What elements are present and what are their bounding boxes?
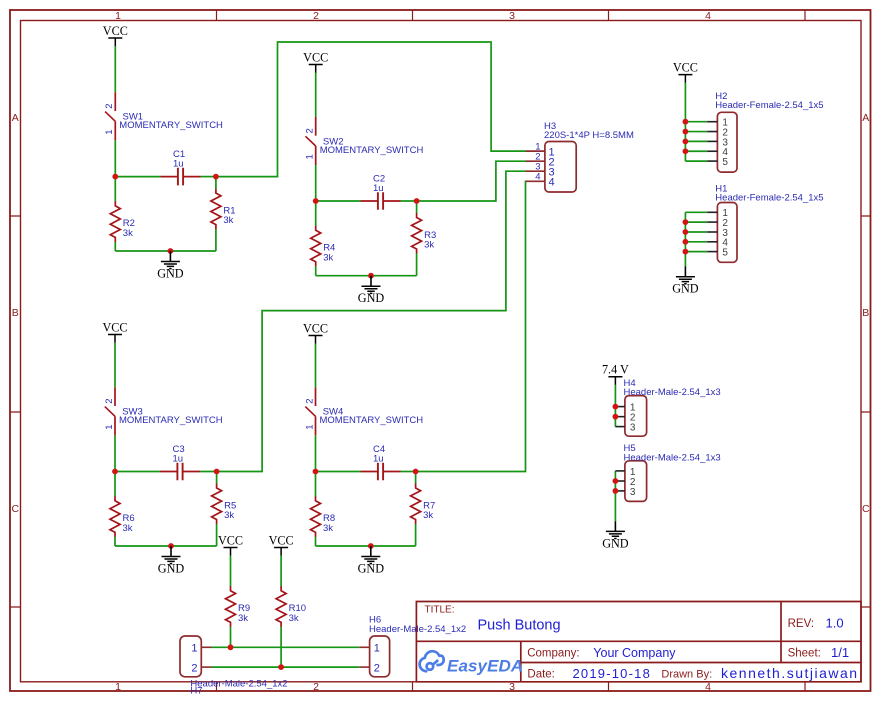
svg-text:Header-Female-2.54_1x5: Header-Female-2.54_1x5: [715, 193, 823, 204]
svg-text:3k: 3k: [238, 613, 248, 624]
resistor R6: [110, 496, 135, 537]
switch SW1: [104, 92, 223, 140]
wire node to R4 top: [315, 201, 317, 226]
EasyEDA logo: [420, 651, 444, 671]
node SW2_OUT right junction: [414, 198, 420, 204]
svg-text:MOMENTARY_SWITCH: MOMENTARY_SWITCH: [320, 415, 424, 426]
wire tap to H2 pin 4: [685, 150, 707, 152]
wire VCC to SW1: [114, 46, 116, 92]
junction H4 pin2: [613, 414, 619, 420]
junction H1 rail: [683, 239, 689, 245]
svg-text:Drawn By:: Drawn By:: [661, 669, 712, 681]
resistor R1: [211, 189, 236, 230]
svg-text:Sheet:: Sheet:: [788, 648, 821, 660]
svg-text:GND: GND: [672, 282, 699, 296]
capacitor C3: [160, 444, 200, 480]
svg-text:GND: GND: [602, 536, 629, 550]
capacitor C4: [361, 444, 401, 480]
svg-text:VCC: VCC: [269, 533, 294, 547]
junction R9 to pin1 net: [228, 644, 234, 650]
resistor R10: [276, 586, 306, 627]
svg-text:1u: 1u: [173, 159, 184, 170]
wire VCC to R9 top: [230, 556, 232, 587]
svg-text:3k: 3k: [323, 252, 333, 263]
wire tap to H2 pin 2: [685, 131, 707, 133]
svg-text:3k: 3k: [323, 523, 333, 534]
junction H2 rail: [683, 119, 689, 125]
wire node to R7 top: [415, 472, 417, 484]
capacitor C2: [361, 174, 401, 210]
power flag VCC: [218, 533, 243, 555]
power flag VCC: [269, 533, 294, 555]
ground: [358, 546, 385, 575]
svg-text:2019-10-18: 2019-10-18: [573, 666, 652, 681]
svg-text:2: 2: [313, 681, 319, 693]
svg-text:1u: 1u: [373, 454, 384, 465]
svg-text:EasyEDA: EasyEDA: [447, 657, 523, 676]
svg-text:MOMENTARY_SWITCH: MOMENTARY_SWITCH: [119, 415, 223, 426]
wire R8 bottom: [315, 537, 317, 546]
svg-text:1: 1: [104, 425, 115, 430]
svg-text:C: C: [862, 503, 870, 515]
resistor R2: [110, 201, 135, 242]
svg-text:1.0: 1.0: [826, 616, 844, 631]
wire node to R8 top: [315, 472, 317, 497]
wire node to R2 top: [114, 177, 116, 202]
svg-text:Date:: Date:: [527, 669, 555, 681]
svg-text:VCC: VCC: [218, 533, 243, 547]
junction block2 GND: [368, 273, 374, 279]
svg-text:3k: 3k: [223, 215, 233, 226]
wire C2 right to node: [400, 200, 416, 202]
svg-text:A: A: [12, 112, 19, 124]
wire H5 pins to GND: [614, 471, 616, 521]
switch SW2: [305, 117, 424, 165]
svg-text:4: 4: [705, 10, 711, 22]
junction H5 pin3: [613, 488, 619, 494]
svg-text:3: 3: [509, 681, 515, 693]
wire 7.4V to H4 pins: [614, 385, 616, 427]
resistor R9: [226, 586, 251, 627]
svg-text:2: 2: [104, 399, 115, 404]
svg-text:1: 1: [115, 681, 121, 693]
svg-text:GND: GND: [358, 561, 385, 575]
wire C3 right to node: [200, 471, 217, 473]
svg-text:Header-Male-2.54_1x2: Header-Male-2.54_1x2: [369, 624, 466, 635]
svg-text:kenneth.sutjiawan: kenneth.sutjiawan: [721, 665, 859, 681]
junction H2 rail: [683, 148, 689, 154]
svg-text:3k: 3k: [224, 510, 234, 521]
svg-text:TITLE:: TITLE:: [425, 605, 455, 616]
title block frame: [416, 602, 861, 682]
wire tap to H1 pin 1: [685, 211, 707, 213]
svg-text:VCC: VCC: [102, 320, 127, 334]
wire VCC to R10 top: [280, 556, 282, 587]
svg-text:Header-Male-2.54_1x3: Header-Male-2.54_1x3: [624, 387, 721, 398]
junction H4 pin1: [613, 404, 619, 410]
svg-text:3: 3: [630, 487, 636, 498]
junction H1 rail: [683, 249, 689, 255]
svg-text:1: 1: [374, 643, 380, 655]
svg-text:VCC: VCC: [103, 24, 128, 38]
wire C4 right to node: [400, 471, 415, 473]
svg-text:220S-1*4P H=8.5MM: 220S-1*4P H=8.5MM: [544, 130, 634, 141]
wire tap to H1 pin 5: [685, 251, 707, 253]
resistor R8: [311, 496, 336, 537]
svg-text:4: 4: [705, 681, 711, 693]
wire tap to H2 pin 3: [685, 140, 707, 142]
node SW1_OUT left junction: [112, 174, 118, 180]
power flag VCC: [673, 60, 698, 82]
svg-text:Header-Male-2.54_1x2: Header-Male-2.54_1x2: [190, 678, 287, 689]
connector H6 Header-Male-2.54_1x2: [359, 615, 466, 677]
wire C1 right to node: [200, 176, 216, 178]
wire SW1 to node SW1_OUT: [114, 140, 116, 176]
wire SW4_OUT to H3 pin 4: [416, 181, 526, 471]
wire tap to H1 pin 2: [685, 221, 707, 223]
wire R2/R1 bottoms to GND: [115, 250, 216, 252]
node SW2_OUT left junction: [313, 198, 319, 204]
connector H5 Header-Male-2.54_1x3: [615, 443, 720, 502]
node SW4_OUT right junction: [413, 469, 419, 475]
wire H7 pin2 to H6 pin2: [212, 666, 360, 668]
svg-text:GND: GND: [158, 561, 185, 575]
svg-text:1u: 1u: [173, 454, 184, 465]
power flag VCC: [103, 24, 128, 46]
power flag VCC: [303, 321, 328, 343]
capacitor C1: [161, 149, 201, 185]
svg-text:GND: GND: [157, 266, 184, 280]
wire tap to H2 pin 5: [685, 160, 707, 162]
svg-text:VCC: VCC: [673, 60, 698, 74]
svg-text:Your Company: Your Company: [593, 646, 676, 660]
svg-text:2: 2: [191, 662, 197, 674]
wire R2 bottom: [114, 242, 116, 251]
ground: [602, 521, 629, 550]
svg-text:REV:: REV:: [788, 618, 814, 630]
wire R6 bottom: [114, 537, 116, 546]
svg-text:MOMENTARY_SWITCH: MOMENTARY_SWITCH: [320, 145, 424, 156]
junction H2 rail: [683, 129, 689, 135]
wire H1 rail to GND: [684, 212, 686, 266]
svg-text:VCC: VCC: [303, 50, 328, 64]
svg-text:2: 2: [374, 662, 380, 674]
switch SW3: [104, 387, 223, 435]
svg-text:Push Butong: Push Butong: [478, 618, 561, 634]
power flag VCC: [102, 320, 127, 342]
wire SW3 to node SW3_OUT: [114, 435, 116, 471]
connector H2 Header-Female-2.54_1x5: [707, 91, 823, 172]
node SW3_OUT left junction: [112, 469, 118, 475]
svg-text:A: A: [862, 112, 869, 124]
wire node to R5 top: [216, 472, 218, 484]
svg-text:4: 4: [535, 172, 540, 183]
wire node to C4 left: [316, 471, 361, 473]
wire R1 bottom: [215, 229, 217, 251]
wire VCC to SW2: [315, 73, 317, 118]
junction H5 pin2: [613, 478, 619, 484]
svg-text:B: B: [12, 307, 19, 319]
svg-text:H7: H7: [190, 686, 202, 697]
wire SW1_OUT to H3 pin 1: [216, 42, 526, 177]
svg-text:B: B: [862, 307, 869, 319]
svg-text:1: 1: [304, 425, 315, 430]
svg-text:1: 1: [305, 154, 316, 159]
svg-text:2: 2: [104, 104, 115, 109]
wire node to R1 top: [215, 177, 217, 189]
wire node to R6 top: [114, 472, 116, 497]
wire VCC to SW3: [114, 343, 116, 388]
svg-text:1u: 1u: [373, 183, 384, 194]
svg-text:2: 2: [313, 10, 319, 22]
junction H1 rail: [683, 229, 689, 235]
junction block4 GND: [368, 543, 374, 549]
ground: [358, 276, 385, 306]
svg-text:MOMENTARY_SWITCH: MOMENTARY_SWITCH: [119, 120, 223, 131]
svg-text:5: 5: [722, 248, 728, 259]
svg-text:5: 5: [722, 157, 728, 168]
resistor R4: [311, 226, 336, 266]
junction block3 GND: [168, 543, 174, 549]
connector H4 Header-Male-2.54_1x3: [615, 378, 720, 436]
wire R4/R3 bottoms to GND: [316, 275, 417, 277]
svg-text:1: 1: [191, 643, 197, 655]
svg-text:4: 4: [549, 177, 555, 189]
wire R8/R7 bottoms to GND: [316, 545, 416, 547]
connector H7 Header-Male-2.54_1x2: [180, 636, 288, 697]
wire SW2 to node SW2_OUT: [315, 165, 317, 201]
resistor R7: [411, 484, 436, 525]
wire R9 bottom to pin1 net: [230, 627, 232, 648]
junction R10 to pin2 net: [278, 664, 284, 670]
svg-text:3k: 3k: [424, 240, 434, 251]
svg-text:Header-Female-2.54_1x5: Header-Female-2.54_1x5: [715, 100, 823, 111]
ground: [157, 251, 184, 280]
svg-text:C: C: [12, 503, 20, 515]
svg-text:3k: 3k: [123, 523, 133, 534]
wire VCC to SW4: [315, 344, 317, 388]
svg-text:GND: GND: [358, 291, 385, 305]
wire SW4 to node SW4_OUT: [315, 435, 317, 471]
junction block1 GND: [168, 248, 174, 254]
power flag VCC: [303, 50, 328, 72]
node SW3_OUT right junction: [214, 469, 220, 475]
ground: [672, 267, 699, 296]
svg-text:7.4 V: 7.4 V: [602, 363, 629, 377]
junction H1 rail: [683, 219, 689, 225]
switch SW4: [304, 387, 423, 435]
wire R7 bottom: [415, 524, 417, 546]
svg-text:3: 3: [509, 10, 515, 22]
svg-text:VCC: VCC: [303, 321, 328, 335]
ground: [158, 546, 185, 575]
wire node to R3 top: [416, 201, 418, 213]
wire R5 bottom: [216, 524, 218, 546]
resistor R5: [212, 484, 237, 525]
wire tap to H2 pin 1: [685, 121, 707, 123]
node SW1_OUT right junction: [213, 174, 219, 180]
wire node to C3 left: [115, 471, 160, 473]
wire SW3_OUT to H3 pin 3: [217, 171, 526, 471]
svg-text:1: 1: [104, 130, 115, 135]
svg-text:1: 1: [115, 10, 121, 22]
wire tap to H1 pin 3: [685, 231, 707, 233]
power flag 7.4 V: [602, 363, 629, 385]
svg-text:Header-Male-2.54_1x3: Header-Male-2.54_1x3: [624, 452, 721, 463]
svg-text:1/1: 1/1: [831, 645, 849, 660]
connector H3 220S-1*4P H=8.5MM: [526, 121, 634, 192]
wire VCC rail to H2: [684, 83, 686, 162]
resistor R3: [412, 213, 437, 254]
svg-text:2: 2: [304, 399, 315, 404]
svg-text:Company:: Company:: [527, 648, 579, 660]
wire R3 bottom: [416, 253, 418, 275]
svg-text:3k: 3k: [123, 228, 133, 239]
svg-text:3: 3: [630, 423, 636, 434]
svg-text:3k: 3k: [289, 613, 299, 624]
node SW4_OUT left junction: [313, 469, 319, 475]
junction H2 rail: [683, 139, 689, 145]
wire H7 pin1 to H6 pin1: [212, 646, 360, 648]
wire tap to H1 pin 4: [685, 241, 707, 243]
wire R4 bottom: [315, 266, 317, 276]
wire R6/R5 bottoms to GND: [115, 545, 217, 547]
wire node to C1 left: [115, 176, 160, 178]
wire R10 bottom to pin2 net: [280, 627, 282, 668]
wire SW2_OUT to H3 pin 2: [417, 161, 526, 201]
wire node to C2 left: [316, 200, 361, 202]
svg-text:2: 2: [305, 128, 316, 133]
connector H1 Header-Female-2.54_1x5: [707, 183, 823, 262]
svg-text:3k: 3k: [423, 510, 433, 521]
